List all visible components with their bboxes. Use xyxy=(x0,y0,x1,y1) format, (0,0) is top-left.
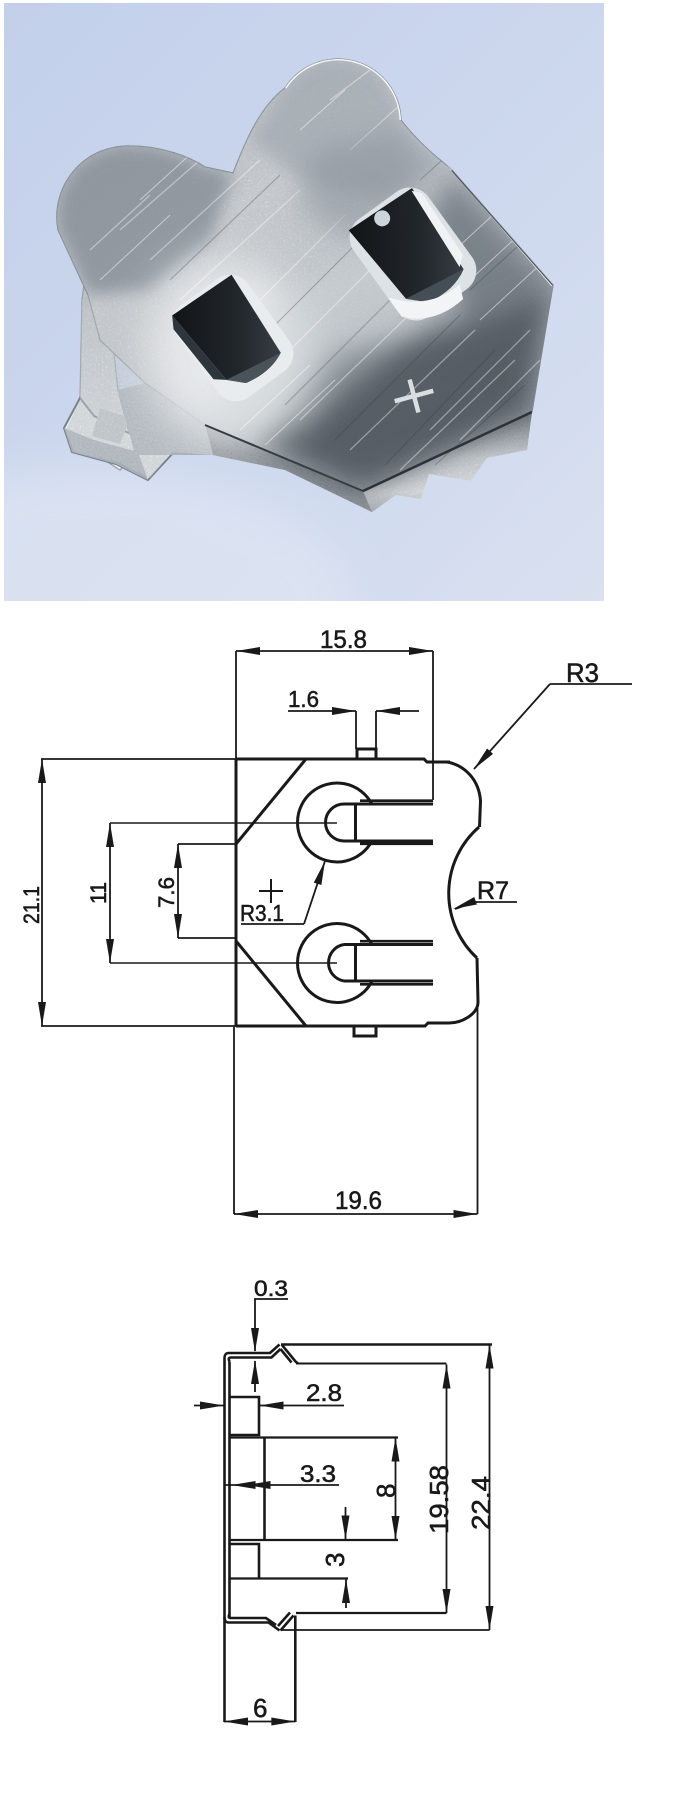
svg-text:R7: R7 xyxy=(477,877,509,905)
svg-text:11: 11 xyxy=(86,882,111,904)
svg-text:1.6: 1.6 xyxy=(288,686,319,712)
svg-text:0.3: 0.3 xyxy=(254,1276,288,1301)
svg-text:6: 6 xyxy=(253,1693,267,1723)
svg-text:2.8: 2.8 xyxy=(306,1380,342,1407)
svg-text:R3.1: R3.1 xyxy=(240,900,284,926)
svg-text:19.58: 19.58 xyxy=(424,1465,454,1534)
svg-text:8: 8 xyxy=(371,1484,401,1498)
svg-text:15.8: 15.8 xyxy=(320,626,367,654)
svg-text:22.4: 22.4 xyxy=(466,1476,496,1530)
svg-text:3.3: 3.3 xyxy=(300,1461,336,1488)
svg-text:21.1: 21.1 xyxy=(19,886,44,924)
svg-text:3: 3 xyxy=(320,1553,350,1567)
svg-text:R3: R3 xyxy=(566,658,599,688)
svg-text:7.6: 7.6 xyxy=(154,877,179,908)
svg-text:19.6: 19.6 xyxy=(335,1187,382,1215)
